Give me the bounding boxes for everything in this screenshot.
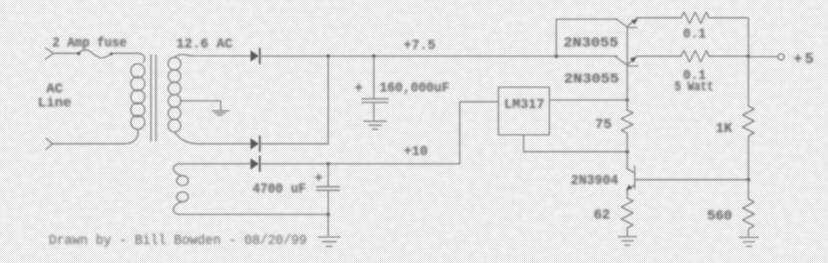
wire winding to diode D3 [179, 163, 251, 165]
transformer T1 low voltage winding [173, 164, 188, 215]
connector J1 AC line hot [46, 48, 54, 59]
svg-text:2N3055: 2N3055 [564, 72, 619, 88]
svg-text:2 Amp fuse: 2 Amp fuse [52, 36, 127, 52]
junction adjust node [625, 150, 629, 154]
svg-text:62: 62 [594, 208, 611, 224]
resistor R4 1K [743, 106, 755, 138]
svg-text:+5: +5 [794, 51, 816, 68]
wire J2 to transformer T1 primary bottom [53, 129, 139, 144]
svg-text:12.6 AC: 12.6 AC [176, 37, 233, 53]
resistor R1 0.1 [681, 12, 709, 23]
capacitor C2 4700uF [317, 164, 340, 215]
junction U1 output at base bus [625, 98, 629, 102]
terminal +5 output [778, 54, 784, 60]
junction C2 top [326, 162, 330, 166]
svg-text:5 Watt: 5 Watt [675, 80, 714, 96]
resistor R6 560 [743, 199, 755, 233]
transistor Q3 2N3904 [626, 166, 635, 191]
diode D3 [251, 156, 260, 171]
transistor Q1 2N3055 [616, 19, 638, 28]
wire divider node to R6 [747, 180, 749, 199]
transistor Q2 2N3055 [615, 56, 638, 66]
svg-text:2N3055: 2N3055 [563, 35, 618, 51]
svg-text:+: + [315, 171, 323, 187]
svg-text:LM317: LM317 [504, 97, 545, 113]
svg-text:160,000uF: 160,000uF [380, 81, 450, 97]
junction divider node [747, 178, 751, 182]
junction +5 node [747, 55, 751, 59]
ground C2 [319, 237, 341, 246]
wire fuse to transformer T1 primary top [112, 53, 145, 62]
wire secondary bottom lead to diode D2 [175, 132, 251, 144]
resistor R5 62 [621, 198, 633, 230]
wire +5 node to R4 [747, 57, 749, 106]
ground center tap [213, 111, 230, 115]
ground R5 [619, 237, 637, 246]
svg-text:2N3904: 2N3904 [571, 173, 619, 189]
wire base bus to Q3 collector [626, 136, 628, 169]
wire +7.5 rail up and over to Q1 base [556, 19, 617, 56]
wire T1 center tap [181, 101, 221, 110]
svg-text:Drawn by - Bill Bowden - 08/20: Drawn by - Bill Bowden - 08/20/99 [49, 233, 307, 249]
transformer T1 secondary winding [168, 57, 181, 132]
wire C2 bottom to ground [327, 214, 329, 235]
wire Q3 base to divider node [635, 179, 749, 181]
wire +5 node to output terminal [748, 56, 778, 58]
svg-text:4700 uF: 4700 uF [253, 182, 307, 198]
transformer T1 primary winding [131, 64, 145, 130]
wire +10 node to U1 input [460, 102, 499, 164]
wire D3 to +10 node [260, 163, 460, 165]
junction C2 bottom [326, 213, 330, 217]
fuse F1 [77, 50, 113, 58]
svg-text:560: 560 [707, 209, 732, 225]
svg-text:1K: 1K [716, 121, 733, 137]
wire Q1 emitter to R1 [636, 17, 681, 19]
resistor R2 0.1 5 Watt [681, 51, 709, 62]
diode D2 [251, 136, 260, 151]
diode D1 [251, 49, 260, 64]
wire D2 to rectifier node [260, 56, 328, 144]
svg-text:0.1: 0.1 [683, 27, 706, 43]
transformer T1 core [151, 55, 156, 141]
svg-text:+10: +10 [404, 144, 428, 160]
junction rectifier node [326, 54, 330, 58]
wire U1 output to base bus [549, 99, 627, 101]
svg-text:+7.5: +7.5 [404, 38, 436, 54]
connector J2 AC line neutral [46, 139, 53, 150]
wire J1 to fuse F1 [54, 52, 80, 54]
ground C1 [364, 121, 386, 129]
wire R2 to +5 node [709, 55, 748, 57]
svg-text:+: + [355, 81, 363, 97]
wire R6 to ground [747, 233, 749, 236]
wire R1 to +5 node [709, 18, 748, 57]
resistor R3 75 [621, 110, 633, 136]
regulator U1 LM317 [498, 87, 549, 135]
wire +7.5 rail D1 to Q2 base [260, 55, 617, 57]
svg-text:Line: Line [38, 96, 72, 112]
wire base bus vertical [626, 27, 628, 110]
ground R6 [740, 237, 759, 246]
svg-text:75: 75 [595, 117, 612, 133]
wire R5 to ground [626, 230, 628, 235]
wire winding return to C2 bottom [179, 213, 329, 215]
wire R4 to divider node [747, 138, 749, 180]
junction C1 top [372, 54, 376, 58]
wire secondary top lead to diode D1 [175, 55, 251, 58]
junction Q1 base takeoff [555, 54, 559, 58]
wire U1 adjust to current limit node [524, 135, 628, 152]
capacitor C1 160,000uF [362, 56, 388, 120]
wire Q2 emitter to R2 [636, 55, 681, 57]
wire Q3 emitter to R5 [626, 190, 628, 198]
